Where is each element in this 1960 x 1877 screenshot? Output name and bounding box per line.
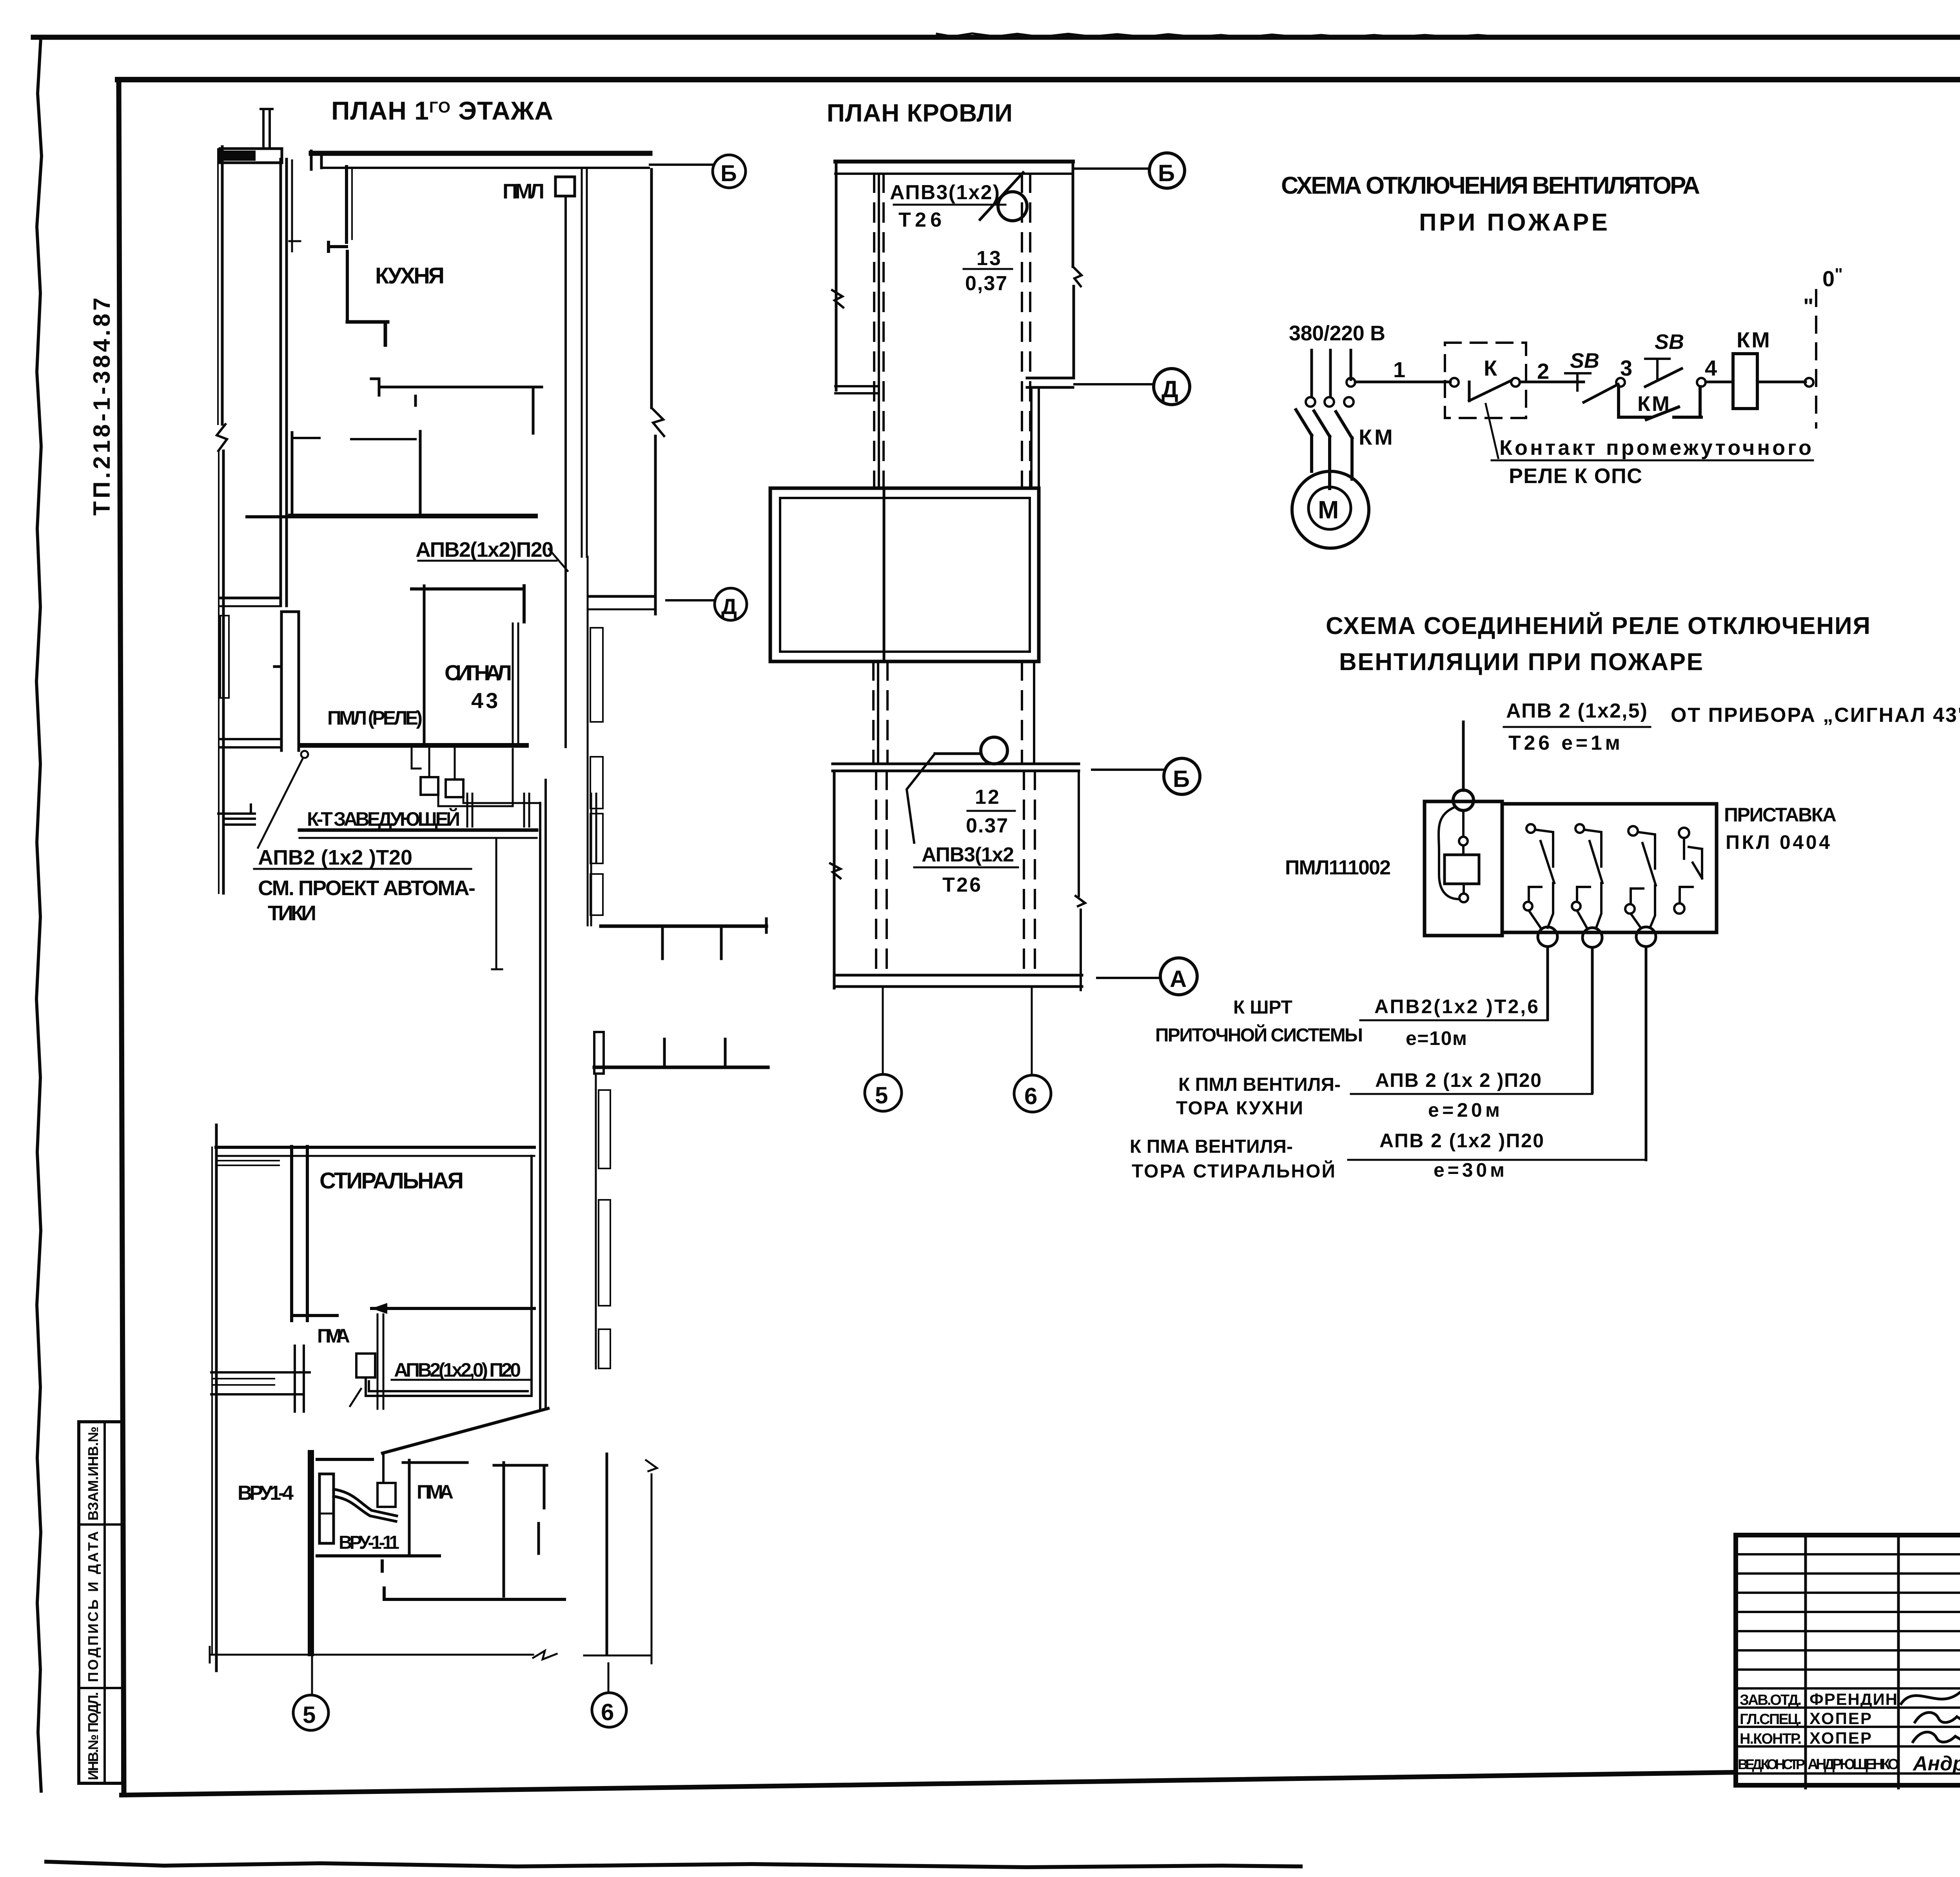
svg-text:1: 1 (1393, 357, 1405, 382)
east outer wall lower (595, 1074, 597, 1368)
small room wall double (377, 1314, 383, 1409)
signal room south wall (302, 743, 526, 748)
wall west of signal room line2 (220, 605, 279, 607)
junction circle 3 (1636, 927, 1656, 947)
signal room east window wall (513, 623, 518, 744)
relay wires (412, 747, 540, 806)
sheet frame left line (119, 80, 124, 1791)
vent fan circle lower (981, 737, 1007, 764)
stiralnaya north wall (216, 1146, 534, 1149)
right room bottom wall (384, 1588, 564, 1599)
ВРУ cabinet divider (319, 1513, 334, 1515)
motor M outer circle (1292, 471, 1369, 548)
stiralnaya east wall (530, 1156, 533, 1314)
coil bypass loop (1439, 807, 1459, 899)
svg-text:К: К (1484, 356, 1497, 380)
strip dashed left below rect (873, 661, 887, 762)
device ПМЛ kitchen (555, 177, 575, 196)
roof top wall (835, 160, 1073, 164)
neutral dashed line (1815, 290, 1817, 427)
chimney stub (261, 109, 272, 148)
SECTION:ROOFPLAN (770, 99, 1200, 1112)
cable underline lower (914, 867, 1018, 869)
svg-text:ВРУ-1-11: ВРУ-1-11 (339, 1532, 400, 1553)
svg-text:2: 2 (1537, 359, 1549, 383)
strip right lightning (1076, 896, 1085, 906)
axis circle 5 roof (865, 1074, 902, 1111)
relay box 2 (446, 780, 463, 797)
junction circle 2 (1583, 928, 1602, 947)
svg-text:СМ. ПРОЕКТ АВТОМА-: СМ. ПРОЕКТ АВТОМА- (258, 876, 476, 900)
svg-text:SB: SB (1655, 330, 1684, 354)
right room E-wall (494, 1463, 547, 1596)
sig scribble 2 (1915, 1712, 1960, 1722)
axis leader Б roof top (1074, 167, 1149, 170)
svg-text:ФРЕНДИН: ФРЕНДИН (1809, 1690, 1898, 1708)
KM pole blades (1296, 410, 1352, 438)
left stamp table divider 2 (79, 1687, 123, 1689)
relay box 1 (421, 777, 438, 795)
axis leader Б floorplan (650, 164, 713, 166)
window frames east lower (599, 1090, 610, 1168)
machine room rect inner (780, 498, 1030, 652)
svg-text:ГЛ.СПЕЦ.: ГЛ.СПЕЦ. (1740, 1711, 1802, 1728)
partition stub a (294, 437, 319, 439)
svg-text:ПРИСТАВКА: ПРИСТАВКА (1724, 804, 1837, 826)
button SB1 blade (1584, 384, 1618, 402)
svg-text:АПВ2(1х2,0) П20: АПВ2(1х2,0) П20 (394, 1359, 522, 1381)
strip dashed left low (876, 771, 887, 974)
button SB2 blade (1645, 369, 1682, 387)
roof left edge (835, 162, 838, 390)
svg-text:КУХНЯ: КУХНЯ (375, 263, 448, 289)
svg-text:ПОДПИСЬ И ДАТА: ПОДПИСЬ И ДАТА (85, 1531, 101, 1682)
roof dashed shaft left pair (874, 174, 884, 486)
cable 3 down (1645, 947, 1648, 1160)
axis circle 6 floorplan (592, 1693, 626, 1727)
strip left solid below (878, 390, 880, 488)
svg-text:е=20м: е=20м (1428, 1099, 1501, 1121)
junction circle top (1453, 790, 1474, 810)
motor leads (1312, 435, 1352, 489)
svg-text:ТОРА СТИРАЛЬНОЙ: ТОРА СТИРАЛЬНОЙ (1132, 1160, 1336, 1182)
kitchen top wall inner line (321, 167, 649, 169)
paper bottom edge line (46, 1862, 1301, 1867)
east window wall mid (591, 794, 596, 925)
cable1 underline (1360, 1019, 1548, 1021)
svg-text:СТИРАЛЬНАЯ: СТИРАЛЬНАЯ (319, 1168, 466, 1194)
end node circle (1805, 378, 1813, 387)
stiralnaya west thick wall (292, 1147, 337, 1321)
svg-text:ТИКИ: ТИКИ (268, 901, 319, 925)
roof left foot (835, 386, 879, 393)
svg-text:0.37: 0.37 (966, 814, 1009, 837)
axis leader Д roof (1074, 383, 1153, 385)
main line seg 4 (1757, 381, 1806, 383)
svg-text:5: 5 (303, 1702, 316, 1728)
strip right edge low2 (1080, 910, 1082, 990)
ВРУ cabinet (319, 1474, 334, 1543)
svg-text:SB: SB (1570, 349, 1599, 372)
axis circle Б floorplan (713, 155, 746, 188)
contact group 1 (1526, 824, 1535, 833)
feed underline (1504, 726, 1650, 728)
diagonal cable to ВРУ (383, 1408, 548, 1453)
title block left grid verticals (1806, 1535, 1960, 1788)
svg-text:Т26: Т26 (942, 874, 984, 896)
kitchen counter (371, 379, 542, 433)
comb wall upper (601, 925, 766, 928)
signal room north wall (412, 586, 524, 622)
cable tick (549, 549, 568, 571)
east outer wall segment2 (654, 436, 657, 614)
SECTION:FLOORPLAN (210, 96, 768, 1730)
svg-text:Н.КОНТР.: Н.КОНТР. (1740, 1731, 1802, 1747)
svg-text:КМ: КМ (1737, 327, 1771, 352)
zaveduyushchei south wall line2 (299, 837, 537, 839)
svg-text:К-Т ЗАВЕДУЮЩЕЙ: К-Т ЗАВЕДУЮЩЕЙ (307, 808, 461, 830)
strip dashed right below rect (1021, 661, 1023, 762)
roof right edge upper (1072, 162, 1074, 267)
machine room rect outer (770, 488, 1039, 661)
cable U-route (366, 1316, 532, 1396)
cable underline U-route (392, 1379, 532, 1381)
pristavka box (1502, 804, 1717, 932)
fan wire horizontal (935, 752, 981, 755)
roof left squiggle (832, 290, 843, 307)
node 4 circle (1697, 378, 1706, 387)
window frame left wall (220, 616, 229, 698)
svg-text:АПВ2(1х2 )Т2,6: АПВ2(1х2 )Т2,6 (1374, 996, 1539, 1018)
SECTION:SCHEMA3 (1130, 612, 1960, 1182)
svg-text:РЕЛЕ К ОПС: РЕЛЕ К ОПС (1509, 464, 1644, 488)
fan bent leader (907, 754, 935, 843)
sheet frame bottom line (122, 1772, 1736, 1795)
svg-text:ИНВ.№ ПОДЛ.: ИНВ.№ ПОДЛ. (85, 1692, 101, 1780)
right room top wall (403, 1461, 467, 1464)
wall right of ВРУ (408, 1460, 411, 1554)
svg-text:0,37: 0,37 (965, 272, 1008, 295)
cable ВРУ to ПМА curved (334, 1489, 397, 1521)
svg-text:ПМЛ (РЕЛЕ): ПМЛ (РЕЛЕ) (327, 707, 423, 729)
roof shaft left solid line (878, 174, 880, 488)
sig scribble 1 (1901, 1689, 1960, 1704)
paper top edge line (33, 35, 1960, 40)
coil wires (1463, 810, 1464, 894)
svg-text:Контакт промежуточного: Контакт промежуточного (1499, 436, 1813, 460)
svg-text:ВРУ1-4: ВРУ1-4 (238, 1482, 294, 1505)
wall below kitchen rooms (290, 514, 535, 518)
svg-text:АПВ 2 (1х2 )П20: АПВ 2 (1х2 )П20 (1379, 1130, 1544, 1152)
callout underline (1492, 460, 1813, 462)
roof top wall line2 (835, 173, 1073, 175)
fan leader diagonal (980, 173, 1023, 220)
svg-text:ПЛАН КРОВЛИ: ПЛАН КРОВЛИ (827, 99, 1019, 127)
device ПМА box (356, 1354, 375, 1377)
east outer wall bottom (606, 1454, 608, 1653)
button SB2 symbol (1645, 359, 1670, 379)
svg-text:12: 12 (975, 786, 1001, 809)
svg-text:ЗАВ.ОТД.: ЗАВ.ОТД. (1740, 1692, 1802, 1708)
right dim squiggle (646, 1460, 657, 1471)
svg-text:е=10м: е=10м (1406, 1027, 1468, 1049)
wall below ВРУ (317, 1556, 439, 1571)
wall top-left block (220, 149, 282, 163)
motor M inner circle (1308, 487, 1351, 529)
axis leader Д floorplan (666, 599, 715, 601)
roof right edge lower (1073, 286, 1075, 378)
comb wall teeth (662, 919, 766, 959)
svg-text:ПРИТОЧНОЙ СИСТЕМЫ: ПРИТОЧНОЙ СИСТЕМЫ (1155, 1024, 1364, 1046)
kitchen west wall lower step (347, 322, 388, 345)
wall left outer upper (221, 147, 224, 424)
contact group 4 (1679, 828, 1689, 838)
svg-text:Б: Б (1158, 160, 1175, 186)
axis circle Д roof (1154, 369, 1190, 405)
main line seg 1 (1355, 381, 1450, 383)
svg-text:К ШРТ: К ШРТ (1233, 997, 1294, 1018)
wall left outer lower (215, 1125, 218, 1671)
svg-text:ВЕНТИЛЯЦИИ ПРИ ПОЖАРЕ: ВЕНТИЛЯЦИИ ПРИ ПОЖАРЕ (1339, 649, 1707, 676)
svg-text:ПМА: ПМА (317, 1325, 352, 1347)
svg-text:АПВ3(1х2: АПВ3(1х2 (922, 843, 1015, 866)
strip left lightning (830, 863, 840, 878)
K contact blade (1469, 380, 1512, 401)
thin partition below (492, 838, 502, 969)
kitchen top wall (311, 151, 650, 156)
axis-6 roof leader (1031, 988, 1033, 1075)
right dim extension (651, 1474, 653, 1663)
south wall arrowhead (372, 1303, 387, 1314)
axis-6 leader (608, 1663, 610, 1693)
KM aux bracket (1619, 387, 1701, 417)
axis circle Д floorplan (715, 588, 747, 620)
title block outer box (1736, 1535, 1960, 1785)
main line seg 2 (1520, 381, 1584, 383)
junction circle 1 (1538, 927, 1557, 947)
svg-text:СХЕМА ОТКЛЮЧЕНИЯ ВЕНТИЛЯТОРА: СХЕМА ОТКЛЮЧЕНИЯ ВЕНТИЛЯТОРА (1281, 172, 1704, 199)
vent fan circle top (998, 192, 1027, 221)
cable label underline2 (254, 868, 471, 870)
svg-text:Андр.: Андр. (1912, 1752, 1960, 1775)
svg-text:ХОПЕР: ХОПЕР (1809, 1709, 1872, 1728)
wall left outer mid (222, 451, 225, 893)
svg-text:АПВ 2 (1х 2 )П20: АПВ 2 (1х 2 )П20 (1375, 1069, 1542, 1091)
comb wall lower left block (594, 1032, 604, 1074)
wire from ПМЛ down (564, 196, 567, 747)
dimension line bottom (210, 1647, 652, 1663)
svg-text:": " (1803, 294, 1814, 318)
SECTION:SCHEMA1 (1281, 172, 1843, 548)
svg-text:АПВ 2 (1х2,5): АПВ 2 (1х2,5) (1506, 700, 1648, 722)
main line seg 3 (1706, 381, 1733, 383)
relay coil rect (1445, 855, 1479, 884)
signal room south wall west extension (220, 739, 279, 747)
callout line to cable label (258, 758, 303, 848)
SECTION:TITLEBLOCK (1736, 1535, 1960, 1790)
paper top edge jagged overscan (937, 33, 1501, 37)
axis circle 6 roof (1014, 1075, 1051, 1112)
machine room divider (883, 488, 886, 661)
strip left edge below Б (833, 771, 836, 988)
comb wall lower teeth (664, 1039, 725, 1067)
callout diagonal from K (1486, 404, 1498, 458)
wall west of signal room (220, 597, 279, 600)
wire from diagonal to ПМА (382, 1453, 385, 1483)
strip right edge below Б (1078, 771, 1080, 896)
cable 2 down (1591, 947, 1594, 1092)
zaveduyushchei south wall (299, 829, 537, 832)
comb wall lower (594, 1066, 768, 1069)
west thick pier wall (274, 612, 299, 750)
axis-5 leader (311, 1655, 313, 1695)
contactor KM pole circles (1306, 397, 1315, 407)
porch window lines (214, 1379, 274, 1385)
stub wall at top (317, 1458, 372, 1461)
axis leader Б lower (1092, 769, 1163, 771)
left stamp table box (79, 1422, 123, 1783)
partition stub b (351, 438, 416, 440)
svg-text:4: 4 (1705, 356, 1717, 380)
wall top-left dark infill (223, 151, 256, 161)
strip left solid below rect (877, 661, 879, 762)
wall piece left of kitchen-rooms wall (247, 515, 290, 518)
axis wall А roof (834, 975, 1082, 987)
svg-text:6: 6 (1024, 1083, 1037, 1109)
axis circle 5 floorplan (293, 1695, 328, 1730)
svg-text:ВЗАМ.ИНВ.№: ВЗАМ.ИНВ.№ (85, 1426, 101, 1521)
svg-text:АПВ2(1х2)П20: АПВ2(1х2)П20 (416, 538, 554, 561)
axis-5 roof leader (882, 988, 884, 1074)
axis leader А roof (1097, 977, 1159, 979)
sheet frame top line (118, 77, 1960, 82)
axis circle Б roof top (1149, 153, 1185, 188)
axis-5 wall lower (308, 1453, 314, 1653)
contact group 3 (1628, 826, 1638, 836)
svg-text:СХЕМА СОЕДИНЕНИЙ РЕЛЕ ОТКЛЮЧЕН: СХЕМА СОЕДИНЕНИЙ РЕЛЕ ОТКЛЮЧЕНИЯ (1326, 612, 1873, 640)
cable3 underline (1348, 1159, 1646, 1161)
east outer windows upper (587, 557, 589, 925)
svg-text:е=30м: е=30м (1434, 1159, 1506, 1181)
K contact terminals (1450, 378, 1459, 387)
window sill left (218, 1161, 279, 1165)
svg-text:К ПМЛ ВЕНТИЛЯ-: К ПМЛ ВЕНТИЛЯ- (1178, 1074, 1341, 1095)
strip right solid below (1031, 387, 1039, 488)
strip right solid below rect (1033, 661, 1035, 762)
svg-text:КМ: КМ (1359, 425, 1395, 449)
coil terminal bottom (1459, 894, 1468, 902)
svg-text:ОТ ПРИБОРА „СИГНАЛ 43': ОТ ПРИБОРА „СИГНАЛ 43' (1671, 704, 1960, 727)
axis wall Б lower (833, 764, 1079, 771)
svg-text:Б: Б (1173, 766, 1190, 792)
cable tick mark (350, 1389, 361, 1406)
svg-text:К ПМА ВЕНТИЛЯ-: К ПМА ВЕНТИЛЯ- (1130, 1136, 1294, 1157)
svg-text:6: 6 (601, 1699, 614, 1725)
dimension squiggle (533, 1651, 557, 1659)
zaveduyushchei room stubs (467, 794, 529, 827)
svg-text:Д: Д (721, 594, 737, 619)
contact group 2 (1575, 824, 1584, 833)
cable label underline (894, 204, 1005, 206)
axis wall Д roof (1027, 378, 1073, 387)
phase line L2 (1329, 350, 1332, 396)
partition vertical mid (419, 431, 422, 514)
svg-text:ТП.218-1-384.87: ТП.218-1-384.87 (89, 296, 115, 516)
strip dashed right low (1024, 771, 1035, 974)
svg-text:3: 3 (1620, 356, 1632, 380)
button SB1 symbol (1565, 373, 1590, 391)
window frames east wall (590, 628, 603, 722)
sig scribble 3 (1913, 1732, 1960, 1742)
corridor thin partition (289, 160, 300, 251)
left stamp table divider 1 (79, 1523, 123, 1526)
svg-text:13: 13 (976, 247, 1002, 270)
wall break squiggle left (217, 424, 227, 451)
relay K dashed box (1445, 343, 1526, 418)
kitchen east wall double (582, 168, 587, 557)
relay ПМЛ box (1425, 801, 1502, 936)
svg-text:ВЕД.КОНСТР: ВЕД.КОНСТР (1738, 1756, 1805, 1772)
svg-text:Д: Д (1161, 376, 1178, 402)
svg-text:А: А (1170, 966, 1187, 992)
left stamp table inner vertical (103, 1422, 106, 1783)
kitchen west wall (328, 167, 347, 322)
east wall squiggle (652, 408, 664, 436)
roof right squiggle (1073, 267, 1082, 286)
signal room west wall (423, 586, 426, 744)
east opening wall double (590, 595, 654, 598)
svg-text:ХОПЕР: ХОПЕР (1809, 1729, 1872, 1747)
east outer wall upper (650, 169, 653, 408)
svg-text:5: 5 (875, 1082, 888, 1108)
SECTION:LEFTSTRIP (79, 296, 1960, 1845)
feed wire down (1462, 722, 1465, 790)
svg-text:АНДРЮЩЕНКО: АНДРЮЩЕНКО (1808, 1756, 1900, 1773)
cable label underline (418, 560, 557, 562)
junction circle on wall (301, 751, 308, 758)
west door stubs (218, 805, 255, 825)
svg-text:М: М (1318, 496, 1339, 524)
roof dashed shaft right pair (1022, 174, 1030, 486)
stiralnaya north wall line2 (216, 1155, 534, 1157)
axis circle А roof (1160, 958, 1197, 995)
porch walls left (211, 1346, 310, 1412)
svg-text:ПРИ ПОЖАРЕ: ПРИ ПОЖАРЕ (1419, 209, 1613, 236)
corridor cable double vertical (540, 780, 546, 1410)
title block left grid rows (1736, 1554, 1960, 1773)
coil KM rect (1733, 354, 1757, 409)
paper left jagged edge (36, 38, 42, 1791)
phase line L3 (1350, 350, 1352, 380)
cable 1 down (1546, 947, 1549, 1019)
svg-text:Б: Б (720, 161, 737, 186)
svg-text:380/220 В: 380/220 В (1289, 322, 1386, 345)
svg-text:АПВ2 (1х2 )Т20: АПВ2 (1х2 )Т20 (258, 846, 413, 869)
partition rooms below kitchen (291, 432, 294, 516)
svg-text:АПВ3(1х2): АПВ3(1х2) (890, 181, 1000, 204)
corridor wall west double (281, 159, 287, 606)
axis circle Б lower (1164, 758, 1200, 794)
KM aux blade (1646, 407, 1679, 420)
device ПМА box lower (377, 1483, 396, 1507)
svg-text:ПМЛ: ПМЛ (503, 180, 547, 203)
svg-text:ТОРА КУХНИ: ТОРА КУХНИ (1176, 1098, 1304, 1119)
node 3 circle (1616, 378, 1625, 387)
phase line L1 (1310, 350, 1313, 396)
svg-text:43: 43 (471, 688, 500, 713)
svg-text:ПМА: ПМА (417, 1481, 456, 1503)
svg-text:ПМЛ111002: ПМЛ111002 (1285, 856, 1392, 879)
